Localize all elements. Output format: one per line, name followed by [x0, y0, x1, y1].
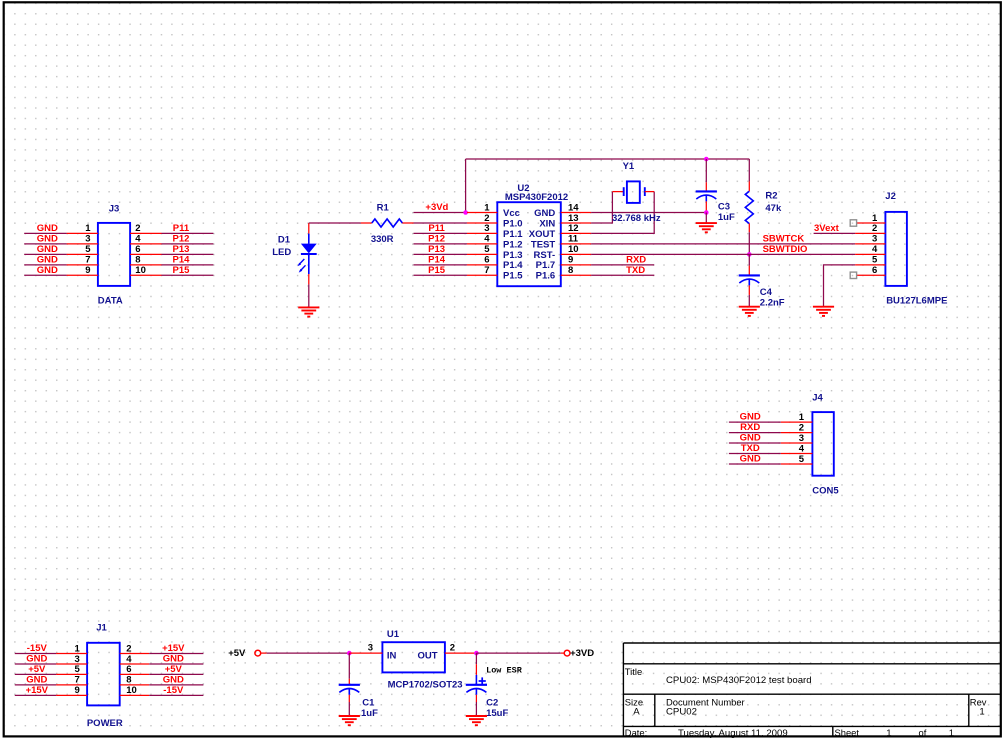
- svg-text:GND: GND: [740, 433, 761, 444]
- svg-text:10: 10: [126, 685, 137, 696]
- svg-text:GND: GND: [37, 265, 58, 276]
- svg-text:Tuesday, August 11, 2009: Tuesday, August 11, 2009: [678, 728, 788, 739]
- svg-text:GND: GND: [37, 244, 58, 255]
- ground: [339, 716, 360, 725]
- svg-text:P15: P15: [173, 265, 191, 276]
- svg-text:330R: 330R: [371, 234, 394, 245]
- wire: [162, 232, 214, 234]
- svg-text:4: 4: [135, 234, 141, 245]
- svg-text:10: 10: [568, 244, 579, 255]
- svg-text:RST-: RST-: [534, 250, 556, 261]
- svg-text:P1.6: P1.6: [536, 271, 556, 282]
- svg-text:+5V: +5V: [228, 648, 246, 659]
- svg-text:4: 4: [126, 654, 132, 665]
- svg-text:GND: GND: [740, 454, 761, 465]
- svg-text:BU127L6MPE: BU127L6MPE: [886, 296, 947, 307]
- svg-text:14: 14: [568, 202, 579, 213]
- svg-text:4: 4: [484, 234, 490, 245]
- wire: [476, 652, 560, 654]
- wire: [414, 264, 468, 266]
- svg-text:3: 3: [75, 654, 80, 665]
- wire: [308, 284, 310, 307]
- svg-text:Low ESR: Low ESR: [486, 666, 523, 676]
- svg-text:P1.1: P1.1: [503, 229, 523, 240]
- connector J3: [67, 203, 162, 306]
- svg-text:GND: GND: [37, 234, 58, 245]
- LED D1: [272, 223, 317, 284]
- svg-text:RXD: RXD: [740, 422, 760, 433]
- svg-text:GND: GND: [37, 255, 58, 266]
- power port +3VD: [561, 648, 594, 659]
- svg-text:GND: GND: [740, 412, 761, 423]
- svg-text:+3Vd: +3Vd: [425, 202, 448, 213]
- wire: [414, 212, 466, 214]
- svg-text:1uF: 1uF: [718, 212, 735, 223]
- wire: [24, 243, 66, 245]
- svg-text:13: 13: [568, 213, 579, 224]
- wire: [814, 232, 856, 234]
- svg-text:R1: R1: [377, 203, 390, 214]
- svg-text:Y1: Y1: [623, 161, 635, 172]
- svg-text:D1: D1: [278, 234, 291, 245]
- junction: [474, 651, 479, 656]
- wire: [149, 663, 203, 665]
- svg-text:11: 11: [568, 234, 579, 245]
- svg-text:P12: P12: [173, 234, 190, 245]
- ground: [696, 223, 717, 232]
- wire: [729, 463, 781, 465]
- svg-text:1: 1: [949, 728, 954, 739]
- svg-text:Title: Title: [625, 666, 642, 677]
- svg-text:9: 9: [568, 255, 573, 266]
- resistor R2: [745, 159, 782, 254]
- svg-text:GND: GND: [26, 654, 47, 665]
- wire: [15, 684, 56, 686]
- svg-text:P11: P11: [173, 223, 190, 234]
- svg-text:U1: U1: [387, 629, 400, 640]
- svg-text:P15: P15: [428, 265, 446, 276]
- svg-text:+15V: +15V: [162, 643, 185, 654]
- svg-text:1: 1: [75, 643, 81, 654]
- svg-text:1: 1: [799, 412, 805, 423]
- svg-text:9: 9: [75, 685, 80, 696]
- svg-text:P14: P14: [173, 255, 191, 266]
- wire: [729, 421, 781, 423]
- no-connect pin 6: [850, 272, 856, 278]
- svg-text:3: 3: [484, 223, 489, 234]
- svg-text:3: 3: [872, 234, 877, 245]
- wire: [591, 264, 654, 266]
- wire: [24, 232, 66, 234]
- ground: [466, 716, 487, 725]
- wire: [414, 274, 468, 276]
- svg-text:P1.0: P1.0: [503, 218, 523, 229]
- svg-text:GND: GND: [37, 223, 58, 234]
- svg-text:R2: R2: [765, 191, 777, 202]
- svg-text:2: 2: [799, 422, 804, 433]
- svg-text:J2: J2: [885, 191, 896, 202]
- junction: [704, 157, 709, 162]
- svg-text:5: 5: [484, 244, 490, 255]
- svg-text:A: A: [633, 707, 640, 718]
- svg-text:4: 4: [799, 443, 805, 454]
- svg-text:TXD: TXD: [741, 443, 760, 454]
- wire: [729, 453, 781, 455]
- capacitor C2: [466, 653, 509, 719]
- svg-text:8: 8: [126, 675, 131, 686]
- wire: [24, 274, 66, 276]
- svg-text:LED: LED: [272, 247, 291, 258]
- svg-text:7: 7: [75, 675, 80, 686]
- svg-text:-15V: -15V: [27, 643, 48, 654]
- svg-text:SBWTDIO: SBWTDIO: [763, 244, 808, 255]
- svg-text:CON5: CON5: [812, 486, 839, 497]
- svg-text:P1.4: P1.4: [503, 260, 523, 271]
- junction: [704, 210, 709, 215]
- no-connect pin 1: [850, 220, 856, 226]
- svg-text:CPU02: MSP430F2012 test board: CPU02: MSP430F2012 test board: [666, 675, 812, 686]
- svg-text:Vcc: Vcc: [503, 208, 520, 219]
- wire: [591, 192, 654, 234]
- wire: [24, 264, 66, 266]
- svg-text:RXD: RXD: [626, 255, 646, 266]
- svg-text:2: 2: [450, 643, 455, 654]
- connector J1: [56, 623, 149, 729]
- svg-text:POWER: POWER: [87, 718, 123, 729]
- svg-text:1uF: 1uF: [361, 708, 378, 719]
- resistor R1: [361, 203, 414, 245]
- svg-text:GND: GND: [163, 675, 184, 686]
- svg-text:12: 12: [568, 223, 579, 234]
- wire: [15, 673, 56, 675]
- wire: [729, 432, 781, 434]
- wire: [15, 694, 56, 696]
- svg-text:7: 7: [484, 265, 489, 276]
- capacitor C1: [339, 653, 378, 719]
- svg-text:P1.3: P1.3: [503, 250, 523, 261]
- svg-text:TXD: TXD: [626, 265, 645, 276]
- svg-text:GND: GND: [26, 675, 47, 686]
- svg-text:GND: GND: [163, 654, 184, 665]
- svg-text:2: 2: [135, 223, 140, 234]
- svg-text:9: 9: [85, 265, 90, 276]
- svg-text:CPU02: CPU02: [666, 707, 697, 718]
- wire: [591, 243, 855, 245]
- svg-text:1: 1: [886, 728, 891, 739]
- wire: [149, 673, 203, 675]
- svg-text:+5V: +5V: [28, 664, 46, 675]
- power port +5V: [228, 648, 267, 659]
- junction: [347, 651, 352, 656]
- wire: [24, 253, 66, 255]
- svg-text:P11: P11: [428, 223, 445, 234]
- svg-text:P1.2: P1.2: [503, 239, 523, 250]
- regulator U1 MCP1702: [349, 629, 476, 690]
- connector J2: [855, 191, 947, 307]
- svg-text:6: 6: [872, 265, 877, 276]
- svg-text:6: 6: [484, 255, 489, 266]
- svg-text:10: 10: [135, 265, 146, 276]
- svg-text:Date:: Date:: [625, 727, 647, 738]
- svg-text:6: 6: [135, 244, 140, 255]
- wire: [149, 684, 203, 686]
- svg-text:1: 1: [979, 707, 984, 718]
- svg-text:+15V: +15V: [26, 685, 49, 696]
- svg-text:XIN: XIN: [539, 218, 555, 229]
- wire: [149, 653, 203, 655]
- wire: [729, 442, 781, 444]
- wire: [414, 232, 468, 234]
- svg-text:3: 3: [368, 643, 373, 654]
- wire: [591, 274, 654, 276]
- svg-text:P12: P12: [428, 234, 445, 245]
- ground: [813, 307, 834, 316]
- svg-text:4: 4: [872, 244, 878, 255]
- capacitor C3: [696, 159, 735, 223]
- ground: [739, 307, 760, 316]
- svg-text:8: 8: [568, 265, 573, 276]
- title block: [623, 643, 1000, 739]
- wire: [309, 222, 361, 224]
- svg-text:P13: P13: [173, 244, 190, 255]
- connector J4: [781, 393, 840, 497]
- svg-text:IN: IN: [387, 651, 397, 662]
- wire: [414, 243, 468, 245]
- wire: [15, 653, 56, 655]
- crystal Y1: [612, 161, 661, 224]
- svg-text:TEST: TEST: [531, 239, 555, 250]
- svg-text:15uF: 15uF: [486, 708, 508, 719]
- svg-text:2: 2: [484, 213, 489, 224]
- svg-text:J4: J4: [812, 393, 823, 404]
- IC U2 MSP430F2012: [467, 183, 591, 286]
- svg-text:2: 2: [872, 223, 877, 234]
- svg-text:1: 1: [872, 213, 878, 224]
- svg-text:MSP430F2012: MSP430F2012: [505, 192, 568, 203]
- capacitor C4: [739, 254, 785, 308]
- svg-text:8: 8: [135, 255, 140, 266]
- junction: [463, 210, 468, 215]
- wire: [149, 694, 203, 696]
- wire: [414, 222, 468, 224]
- svg-text:P1.5: P1.5: [503, 271, 523, 282]
- svg-text:P13: P13: [428, 244, 445, 255]
- ground: [298, 307, 319, 316]
- svg-text:5: 5: [799, 454, 805, 465]
- svg-text:J3: J3: [109, 203, 120, 214]
- svg-text:OUT: OUT: [418, 651, 438, 662]
- wire: [591, 253, 855, 255]
- svg-text:+5V: +5V: [165, 664, 183, 675]
- svg-text:3: 3: [799, 433, 804, 444]
- svg-text:2: 2: [126, 643, 131, 654]
- svg-text:2.2nF: 2.2nF: [760, 297, 785, 308]
- wire: [466, 158, 750, 160]
- svg-text:J1: J1: [96, 623, 107, 634]
- svg-text:1: 1: [484, 202, 490, 213]
- svg-text:3Vext: 3Vext: [814, 223, 840, 234]
- svg-text:P1.7: P1.7: [536, 260, 556, 271]
- wire: [267, 652, 350, 654]
- svg-text:DATA: DATA: [98, 296, 123, 307]
- svg-text:of: of: [919, 727, 927, 738]
- svg-text:5: 5: [872, 255, 878, 266]
- svg-text:Sheet: Sheet: [835, 727, 860, 738]
- junction: [747, 252, 752, 257]
- wire: [162, 274, 214, 276]
- svg-text:1: 1: [85, 223, 91, 234]
- svg-text:SBWTCK: SBWTCK: [763, 234, 805, 245]
- svg-text:XOUT: XOUT: [529, 229, 556, 240]
- svg-text:47k: 47k: [765, 203, 782, 214]
- svg-text:P14: P14: [428, 255, 446, 266]
- svg-text:GND: GND: [534, 208, 555, 219]
- wire: [15, 663, 56, 665]
- wire: [591, 192, 612, 223]
- wire: [162, 264, 214, 266]
- svg-text:7: 7: [85, 255, 90, 266]
- wire: [591, 212, 706, 214]
- svg-text:-15V: -15V: [163, 685, 184, 696]
- svg-text:5: 5: [75, 664, 81, 675]
- wire: [824, 265, 856, 307]
- wire: [162, 243, 214, 245]
- svg-text:5: 5: [85, 244, 91, 255]
- svg-text:MCP1702/SOT23: MCP1702/SOT23: [388, 680, 463, 691]
- wire: [162, 253, 214, 255]
- wire: [465, 159, 467, 213]
- svg-text:6: 6: [126, 664, 131, 675]
- svg-text:3: 3: [85, 234, 90, 245]
- svg-text:32.768 kHz: 32.768 kHz: [612, 213, 661, 224]
- wire: [414, 253, 468, 255]
- wire: [705, 213, 707, 224]
- svg-text:+3VD: +3VD: [570, 648, 594, 659]
